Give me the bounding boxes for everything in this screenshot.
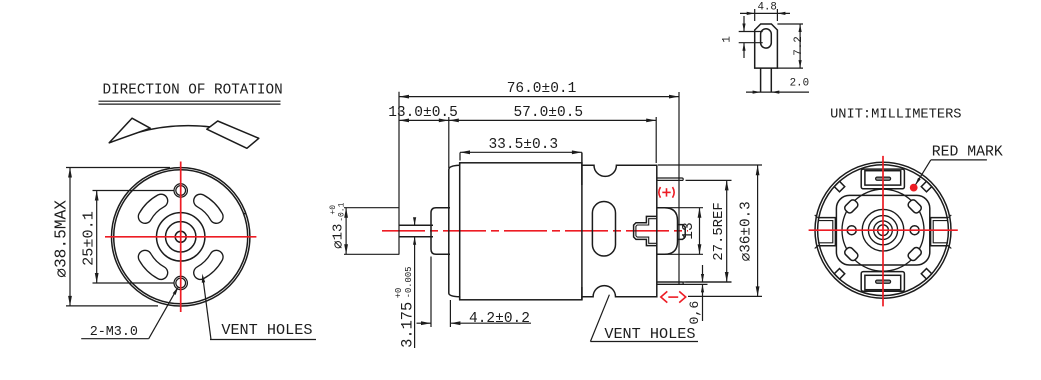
rear small hole left [847, 226, 856, 235]
shaft circle [175, 231, 186, 242]
svg-text:27.5REF: 27.5REF [711, 202, 727, 260]
svg-text:-0.005: -0.005 [404, 267, 414, 299]
svg-text:UNIT:MILLIMETERS: UNIT:MILLIMETERS [830, 108, 961, 123]
rear oval hole top-left [843, 198, 859, 214]
ring seam tick [244, 212, 246, 215]
svg-text:2.0: 2.0 [790, 77, 809, 89]
front boss circle [166, 222, 196, 252]
dimension 76.0+-0.1 [399, 81, 679, 285]
top terminal block [861, 169, 904, 189]
crimp notch 1 [834, 181, 844, 191]
red plus polarity mark [659, 187, 674, 198]
label VENT HOLES side with leader [590, 295, 698, 343]
svg-text:57.0±0.5: 57.0±0.5 [513, 105, 583, 121]
rear view outer circle [815, 162, 951, 298]
dimension 13 rear boss [657, 208, 703, 255]
shaft [399, 225, 433, 236]
rear view horizontal centerline [809, 229, 958, 231]
dimension d13 shaft boss [329, 202, 399, 254]
svg-text:4.8: 4.8 [757, 2, 776, 14]
endbell oval vent hole [592, 202, 615, 257]
svg-text:1: 1 [722, 36, 734, 43]
dimension d38.5MAX [52, 168, 170, 306]
brush end cap plate [836, 195, 929, 265]
dimension d36+-0.3 [658, 165, 762, 296]
rear bearing cap [657, 208, 678, 255]
rear thrust bracket [634, 216, 657, 245]
rear shaft nub [678, 225, 686, 240]
rear small hole right [910, 226, 919, 235]
title DIRECTION OF ROTATION [99, 83, 283, 105]
dimension 3.175 shaft diameter [394, 217, 417, 348]
vent slot bottom-right [200, 257, 216, 273]
rear view inner ring [818, 165, 949, 296]
left side tab [815, 215, 836, 249]
svg-text:+0: +0 [394, 288, 404, 299]
can front lip [449, 163, 460, 300]
vent slot bottom-left [145, 257, 161, 273]
dimension 1 [722, 16, 763, 58]
svg-text:⌀38.5MAX: ⌀38.5MAX [52, 200, 70, 278]
terminal detail tab outline [755, 24, 778, 68]
side view red centerline [382, 230, 688, 232]
front bearing housing circle [157, 213, 205, 261]
svg-text:13.0±0.5: 13.0±0.5 [388, 105, 458, 121]
lower terminal tab side view [657, 282, 683, 284]
dimensions 13.0 and 57.0 [388, 105, 656, 168]
svg-text:⌀36±0.3: ⌀36±0.3 [739, 201, 755, 261]
label RED MARK with leader [915, 145, 1003, 186]
svg-text:DIRECTION OF ROTATION: DIRECTION OF ROTATION [103, 83, 283, 99]
bottom M3 mounting hole [174, 276, 187, 289]
svg-text:VENT HOLES: VENT HOLES [221, 321, 312, 339]
endbell outline with vent notches [582, 165, 657, 297]
svg-text:+0: +0 [329, 205, 338, 215]
upper terminal tab side view [657, 178, 683, 180]
svg-text:-0.1: -0.1 [338, 202, 347, 221]
rear oval hole top-right [907, 198, 923, 214]
motor can mid section [460, 163, 582, 300]
motor front view inner ring [114, 170, 248, 304]
dimension 33.5+-0.3 [460, 137, 582, 161]
rear oval hole bottom-left [843, 246, 859, 262]
front view horizontal centerline [105, 236, 256, 238]
rear oval hole bottom-right [907, 246, 923, 262]
front bearing boss d13 [431, 208, 450, 255]
top M3 mounting hole [174, 184, 187, 197]
dimension 4.2+-0.2 [417, 257, 532, 328]
svg-text:33.5±0.3: 33.5±0.3 [488, 137, 558, 153]
dimension 25+-0.1 [79, 191, 174, 284]
note UNIT:MILLIMETERS [830, 108, 961, 123]
svg-text:VENT HOLES: VENT HOLES [604, 325, 695, 343]
terminal detail legs [761, 68, 772, 92]
terminal detail oval hole [761, 29, 772, 48]
red minus polarity mark [661, 291, 686, 302]
svg-text:4.2±0.2: 4.2±0.2 [469, 311, 530, 327]
svg-text:0,6: 0,6 [687, 301, 702, 325]
rotation direction curved arrow [109, 118, 259, 148]
dimension 27.5REF [686, 180, 732, 282]
svg-text:RED MARK: RED MARK [932, 145, 1003, 161]
rear view vertical centerline [882, 156, 884, 307]
svg-text:13: 13 [681, 222, 697, 239]
red mark dot [910, 184, 918, 192]
crimp notch 3 [834, 269, 844, 279]
crimp notch 4 [921, 269, 931, 279]
crimp notch 2 [921, 181, 931, 191]
svg-text:7.2: 7.2 [793, 36, 805, 55]
motor front view outer circle [112, 168, 250, 306]
svg-text:2-M3.0: 2-M3.0 [90, 325, 138, 340]
svg-text:76.0±0.1: 76.0±0.1 [507, 81, 577, 97]
label VENT HOLES front with leader [202, 274, 316, 340]
front view vertical centerline [180, 162, 182, 313]
right side tab [931, 215, 952, 249]
rear bearing rings [862, 209, 904, 251]
svg-text:25±0.1: 25±0.1 [79, 211, 97, 266]
dimension 7.2 [777, 24, 805, 68]
rear bolt circle [842, 189, 924, 271]
label 2-M3.0 with leader [81, 286, 178, 340]
dimension 0.6 terminal thickness [657, 265, 732, 325]
vent slot top-left [145, 201, 161, 217]
svg-text:⌀13: ⌀13 [331, 223, 347, 248]
dimension 2.0 [746, 77, 809, 93]
dimension 4.8 [740, 2, 790, 22]
vent slot top-right [200, 201, 216, 217]
bottom terminal block [861, 272, 904, 292]
svg-text:3.175: 3.175 [399, 302, 417, 348]
endbell step lines [581, 153, 583, 300]
